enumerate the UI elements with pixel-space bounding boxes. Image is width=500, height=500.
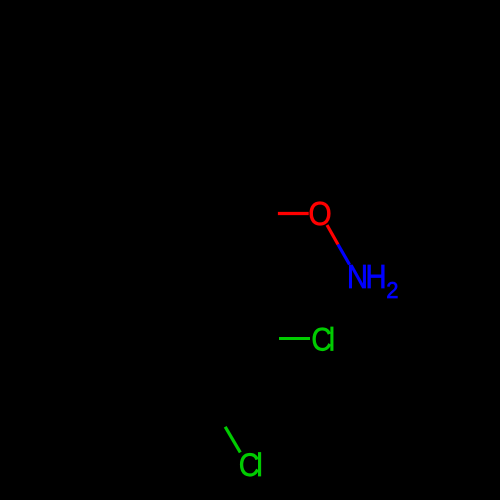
svg-text:O: O: [308, 194, 331, 232]
svg-text:l: l: [256, 446, 262, 483]
svg-text:H: H: [365, 258, 386, 295]
svg-text:l: l: [329, 323, 335, 358]
svg-text:2: 2: [386, 277, 398, 303]
